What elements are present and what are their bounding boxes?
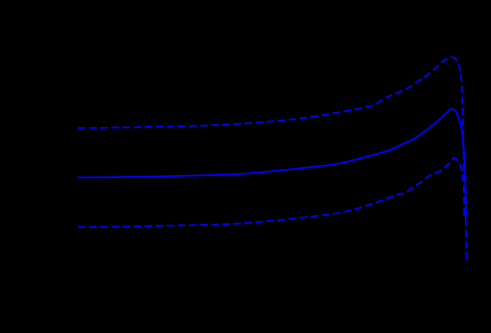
lower confidence band (dashed blue) [78, 158, 467, 261]
fitted curve (solid blue) [78, 109, 466, 219]
upper confidence band (dashed blue) [78, 57, 464, 217]
